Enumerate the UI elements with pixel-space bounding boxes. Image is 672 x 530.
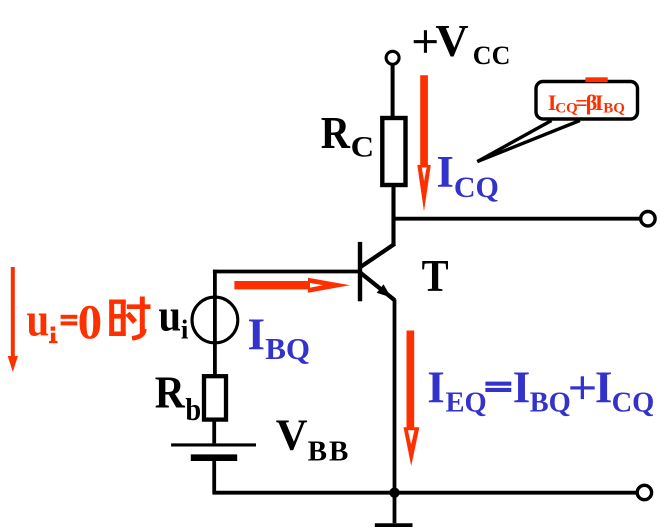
callout pointer lines <box>477 121 580 162</box>
svg-text:R: R <box>155 367 185 417</box>
svg-text:R: R <box>321 108 351 158</box>
svg-text:I: I <box>248 310 266 360</box>
label +VCC <box>414 15 511 70</box>
wire collector output <box>392 217 640 221</box>
svg-text:i: i <box>181 315 189 345</box>
wire through source <box>213 270 217 376</box>
svg-text:I: I <box>595 90 604 115</box>
terminal output bottom <box>637 485 651 499</box>
callout red highlight bar <box>585 77 607 82</box>
wire RC to collector node <box>391 187 395 246</box>
resistor RC <box>382 118 405 185</box>
svg-text:I: I <box>436 147 454 197</box>
transistor emitter arrowhead <box>377 284 391 297</box>
svg-text:T: T <box>422 251 449 301</box>
source ui circle <box>192 297 238 343</box>
wire VCC to RC <box>391 65 395 119</box>
svg-text:I: I <box>427 362 445 412</box>
label IBQ <box>248 310 310 366</box>
svg-text:V: V <box>276 411 308 460</box>
ground stub <box>393 493 397 524</box>
wire emitter down <box>393 300 397 493</box>
svg-text:u: u <box>159 291 182 341</box>
svg-text:BQ: BQ <box>530 387 571 418</box>
junction dot <box>389 488 399 498</box>
svg-text:I: I <box>513 362 531 412</box>
svg-text:BQ: BQ <box>265 331 310 366</box>
svg-text:u: u <box>27 293 50 346</box>
terminal +VCC <box>386 51 399 64</box>
arrow IBQ <box>234 278 350 293</box>
callout box ICQ=bIBQ <box>536 82 638 120</box>
label RC <box>321 108 374 164</box>
svg-text:BQ: BQ <box>603 101 625 117</box>
wire battery to bottom <box>212 459 216 495</box>
label Rb <box>155 367 201 427</box>
transistor collector diagonal <box>361 244 395 267</box>
svg-text:b: b <box>185 391 201 427</box>
wire base <box>213 270 359 274</box>
callout text ICQ=betaIBQ <box>548 90 625 116</box>
wire bottom rail <box>213 491 637 495</box>
svg-text:V: V <box>435 15 468 66</box>
label VBB <box>276 411 349 468</box>
label IEQ=IBQ+ICQ <box>427 362 654 418</box>
arrow ui=0 left <box>8 267 18 372</box>
svg-text:EQ: EQ <box>446 387 487 418</box>
glyph shi (Chinese) <box>109 297 150 339</box>
label ui=0 red text <box>27 293 103 349</box>
svg-text:C: C <box>351 131 375 164</box>
ground bar <box>375 523 413 527</box>
svg-text:CQ: CQ <box>612 387 655 418</box>
label ui <box>159 291 189 345</box>
transistor emitter diagonal <box>361 273 395 301</box>
wire Rb to battery <box>212 420 216 444</box>
svg-text:I: I <box>595 362 613 412</box>
transistor T base bar <box>358 242 362 301</box>
battery VBB plate long <box>171 443 256 446</box>
svg-text:0: 0 <box>78 294 103 349</box>
battery VBB plate short <box>191 454 237 461</box>
svg-text:CQ: CQ <box>454 171 499 204</box>
svg-text:BB: BB <box>308 436 349 468</box>
arrow ICQ <box>417 75 430 211</box>
label ICQ <box>436 147 499 204</box>
arrow IEQ <box>404 331 420 467</box>
resistor Rb <box>204 376 226 419</box>
svg-text:CC: CC <box>473 41 511 70</box>
terminal output top <box>641 212 655 226</box>
